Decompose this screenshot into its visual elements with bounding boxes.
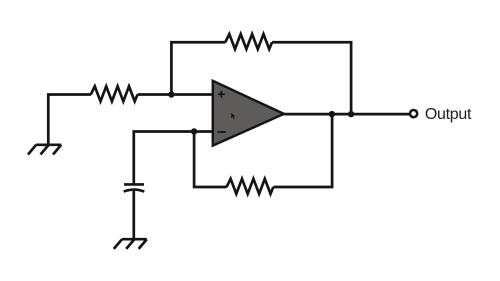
wire from R1 to op-amp + input <box>138 93 213 96</box>
resistor R1 <box>91 86 138 101</box>
wire from capacitor node to op-amp - input <box>134 132 213 185</box>
wire top feedback left: node A up to top rail <box>171 42 225 94</box>
ground G2 <box>114 239 147 249</box>
junction on output rail (bottom feedback) <box>329 111 335 117</box>
output terminal <box>410 110 417 117</box>
wire op-amp output to terminal <box>284 113 409 116</box>
junction node B (- input) <box>191 128 197 134</box>
cursor artifact <box>231 113 235 119</box>
resistor R3 <box>227 179 274 194</box>
wire top feedback right: R2 to output rail <box>272 42 351 114</box>
op-amp + input label <box>218 91 225 98</box>
svg-text:Output: Output <box>425 106 472 123</box>
wire bottom feedback left: node B down to bottom rail <box>194 132 227 188</box>
op-amp U1 <box>213 81 284 146</box>
junction node A (+ input) <box>168 91 174 97</box>
op-amp - input label <box>218 131 226 133</box>
wire from ground G1 up and right to resistor R1 <box>48 95 91 145</box>
capacitor C1 <box>124 184 145 191</box>
wire capacitor bottom lead <box>132 190 135 239</box>
ground G1 <box>28 145 61 155</box>
wire bottom feedback right: R3 up to output rail <box>273 114 332 187</box>
junction on output rail (top feedback) <box>348 111 354 117</box>
resistor R2 <box>225 34 272 49</box>
